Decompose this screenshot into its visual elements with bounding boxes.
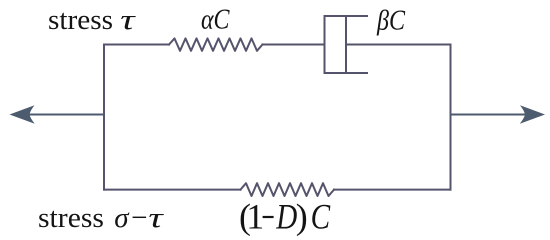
svg-text:1: 1: [246, 196, 264, 236]
svg-text:C: C: [311, 196, 331, 236]
svg-text:αC: αC: [201, 4, 230, 36]
svg-text:): ): [296, 196, 308, 236]
svg-text:D: D: [275, 196, 297, 236]
svg-text:stress τ: stress τ: [48, 4, 137, 36]
svg-text:βC: βC: [376, 5, 405, 37]
svg-text:stress σ−τ: stress σ−τ: [38, 202, 165, 234]
